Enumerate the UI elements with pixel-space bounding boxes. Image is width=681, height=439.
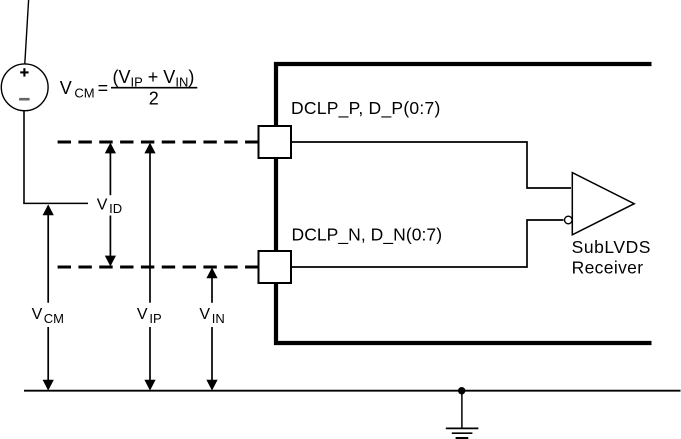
svg-text:SubLVDS: SubLVDS — [572, 237, 651, 257]
svg-text:VID: VID — [97, 197, 122, 217]
wire ground stem — [461, 391, 463, 429]
node VIN dashed line — [58, 266, 259, 269]
label pin DCLP_N — [292, 224, 443, 245]
node VIP dashed line — [58, 141, 259, 144]
measurement arrow VIP — [144, 143, 155, 391]
svg-text:DCLP_N, D_N(0:7): DCLP_N, D_N(0:7) — [292, 224, 443, 245]
label VID — [97, 197, 122, 217]
ground rail — [24, 390, 681, 392]
wire source bottom — [23, 111, 25, 204]
svg-text:VCM: VCM — [60, 78, 95, 101]
pin DCLP_N — [259, 251, 292, 283]
svg-text:VCM: VCM — [32, 306, 64, 326]
svg-text:VIN: VIN — [199, 306, 224, 326]
voltage source VCM — [1, 64, 48, 111]
measurement arrow VIN — [206, 267, 217, 390]
wire DCLP_N to receiver — [291, 220, 564, 267]
ground — [446, 428, 479, 438]
wire top feed to source — [25, 0, 29, 64]
label VIN — [199, 306, 224, 326]
label SubLVDS Receiver — [572, 237, 651, 277]
svg-text:2: 2 — [149, 88, 159, 108]
svg-text:=: = — [98, 78, 109, 98]
measurement arrow VCM — [43, 204, 54, 390]
wire horizontal stub at VCM top reference — [23, 202, 88, 204]
svg-text:(VIP + VIN): (VIP + VIN) — [113, 67, 195, 89]
measurement arrow VID — [105, 143, 116, 267]
receiver inverting input bubble — [565, 216, 573, 224]
junction dot — [458, 387, 465, 394]
formula label VCM = (VIP + VIN)/2 — [60, 67, 198, 108]
receiver U1 triangle — [572, 173, 634, 235]
chip outline — [276, 64, 652, 343]
label VIP — [137, 306, 162, 326]
pin DCLP_P — [259, 126, 292, 158]
label pin DCLP_P — [291, 98, 441, 119]
svg-text:VIP: VIP — [137, 306, 162, 326]
svg-text:DCLP_P, D_P(0:7): DCLP_P, D_P(0:7) — [291, 98, 441, 119]
label VCM — [32, 306, 64, 326]
svg-text:Receiver: Receiver — [572, 257, 644, 277]
wire DCLP_P to receiver — [291, 142, 571, 188]
